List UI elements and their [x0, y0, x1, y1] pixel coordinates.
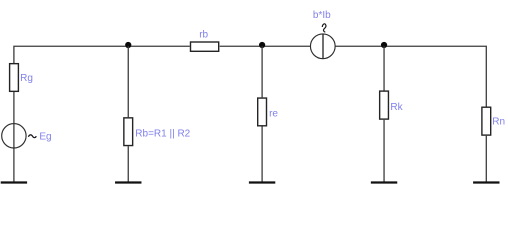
ground under Rn	[473, 181, 499, 183]
wire top horizontal middle segment	[220, 45, 311, 47]
svg-text:Eg: Eg	[39, 131, 51, 142]
node junction at Rb branch	[125, 42, 131, 48]
source Eg (AC voltage source circle)	[2, 124, 26, 148]
current source b*Ib (circle)	[310, 34, 335, 59]
resistor Rg	[10, 64, 19, 92]
svg-text:Rn: Rn	[492, 117, 505, 128]
resistor Rn	[482, 107, 491, 135]
wire Rk branch upper	[383, 46, 385, 90]
svg-text:Rk: Rk	[390, 102, 403, 113]
ground under Rk	[371, 181, 397, 183]
wire Rb branch upper	[127, 46, 129, 117]
bar through b*Ib	[322, 34, 324, 58]
svg-text:Rb=R1 || R2: Rb=R1 || R2	[135, 129, 190, 140]
resistor rb (horizontal)	[191, 42, 219, 51]
tilde of Eg	[28, 135, 36, 138]
ground under Eg	[1, 181, 27, 183]
node junction at Rk branch	[381, 42, 387, 48]
resistor Rb	[124, 118, 133, 146]
ground under Rb	[115, 181, 141, 183]
wire Rk branch lower	[383, 120, 385, 182]
resistor Rk	[380, 91, 389, 119]
wire left branch lower through Eg	[13, 92, 15, 182]
ground under re	[249, 181, 275, 183]
svg-text:b*Ib: b*Ib	[313, 10, 331, 21]
svg-text:Rg: Rg	[20, 73, 33, 84]
wire top-left corner segment	[14, 46, 190, 63]
wire re branch upper	[261, 46, 263, 97]
wire re branch lower	[261, 127, 263, 182]
vertical tilde above b*Ib	[322, 24, 326, 32]
resistor re	[258, 98, 267, 126]
svg-text:rb: rb	[199, 29, 208, 40]
wire right branch lower	[485, 136, 487, 182]
wire Rb branch lower	[127, 146, 129, 181]
node junction at re branch	[259, 42, 265, 48]
svg-text:re: re	[269, 108, 278, 119]
wire top-right corner segment	[335, 46, 486, 106]
